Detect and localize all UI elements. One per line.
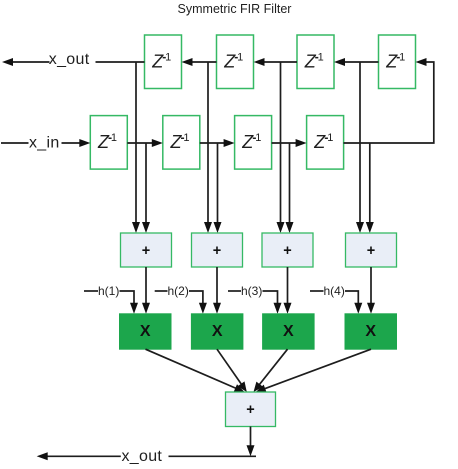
delay block Z4 (bottom row 4) (Z^-1) [307,116,344,170]
wire: Z7 out to Z6 in [254,58,298,66]
wire: top-row tap 4 down to adder S4 [356,62,364,233]
svg-text:Z: Z [385,52,398,72]
svg-text:1: 1 [399,52,405,64]
delay block Z3 (bottom row 3) (Z^-1) [235,116,272,170]
svg-text:x_out: x_out [122,448,163,465]
wire: Z2 out to Z3 in [200,139,235,147]
svg-text:h(4): h(4) [324,284,345,298]
svg-text:Symmetric FIR Filter: Symmetric FIR Filter [178,2,292,16]
wire: final adder output down to x_out line [247,427,255,457]
wire: bottom-row tap 4 down to adder S4 [366,143,374,233]
delay block Z2 (bottom row 2) (Z^-1) [163,116,200,170]
wire: adder S2 output down to multiplier M2 [213,267,221,314]
delay block Z1 (bottom row 1) (Z^-1) [90,116,127,170]
multiplier M1 (X) [120,314,172,349]
delay block Z7 (top row 3) (Z^-1) [297,35,334,89]
multiplier M4 (X) [345,314,397,349]
wire: bottom-row tap 2 down to adder S2 [214,143,222,233]
svg-text:Z: Z [223,52,236,72]
wire: multiplier M4 output to final adder S5 [256,349,371,392]
wire: Z4 out right, up, into Z8 input [344,58,434,143]
delay block Z8 (top row 4) (Z^-1) [379,35,416,89]
svg-text:+: + [142,243,150,259]
delay block Z6 (top row 2) (Z^-1) [217,35,254,89]
svg-text:+: + [367,243,375,259]
wire: bottom-row tap 1 down to adder S1 [142,143,150,233]
wire: x_out bottom with left arrow [37,452,256,460]
svg-text:+: + [283,243,291,259]
svg-text:x_out: x_out [49,51,90,68]
adder S4 (+) [346,233,397,267]
svg-text:Z: Z [313,132,326,152]
wire: adder S4 output down to multiplier M4 [367,267,375,314]
multiplier M3 (X) [263,314,315,349]
wire: h(3) into multiplier M3 [228,291,282,314]
wire: bottom-row tap 3 down to adder S3 [286,143,294,233]
svg-text:1: 1 [183,132,189,144]
wire: adder S3 output down to multiplier M3 [284,267,292,314]
wire: adder S1 output down to multiplier M1 [142,267,150,314]
delay block Z5 (top row 1) (Z^-1) [145,35,182,89]
svg-text:h(2): h(2) [168,284,189,298]
multiplier M2 (X) [191,314,243,349]
svg-text:+: + [213,243,221,259]
wire: multiplier M3 output to final adder S5 [254,349,288,392]
adder S3 (+) [262,233,313,267]
wire: h(4) into multiplier M4 [310,291,362,314]
adder S1 (+) [121,233,172,267]
svg-text:X: X [212,323,223,340]
wire: top-row tap 3 down to adder S3 [277,62,285,233]
svg-text:1: 1 [327,132,333,144]
wire: Z8 out to Z7 in [334,58,379,66]
wire: x_out top output with left arrow [2,58,145,66]
svg-text:Z: Z [241,132,254,152]
wire: x_in input with right arrow into Z1 [1,139,90,147]
wire: h(1) into multiplier M1 [84,291,138,314]
wire: Z6 out to Z5 in [182,58,217,66]
adder S2 (+) [192,233,243,267]
wire: Z3 out to Z4 in [272,139,307,147]
svg-text:1: 1 [111,132,117,144]
wire: top-row tap 1 down to adder S1 [132,62,140,233]
svg-text:X: X [365,323,376,340]
svg-text:1: 1 [255,132,261,144]
svg-text:1: 1 [237,52,243,64]
svg-text:h(1): h(1) [98,284,119,298]
svg-text:Z: Z [97,132,110,152]
svg-text:X: X [140,323,151,340]
svg-text:Z: Z [170,132,183,152]
wire: top-row tap 2 down to adder S2 [204,62,212,233]
wire: multiplier M2 output to final adder S5 [217,349,247,392]
wire: multiplier M1 output to final adder S5 [146,349,245,392]
svg-text:x_in: x_in [29,135,60,152]
adder S5 (final +) [226,392,276,427]
svg-text:1: 1 [165,52,171,64]
svg-text:+: + [246,402,254,418]
svg-text:Z: Z [151,52,164,72]
svg-text:h(3): h(3) [241,284,262,298]
svg-text:X: X [283,323,294,340]
svg-text:1: 1 [318,52,324,64]
wire: h(2) into multiplier M2 [155,291,207,314]
wire: Z1 out to Z2 in [127,139,163,147]
svg-text:Z: Z [304,52,317,72]
